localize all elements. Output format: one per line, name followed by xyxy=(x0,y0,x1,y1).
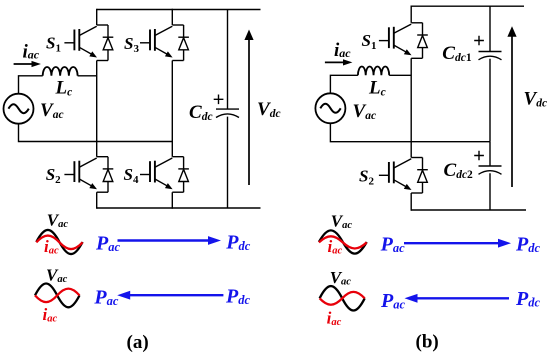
wire: inductor to leg midpoint (b) xyxy=(389,74,411,76)
wire: bottom DC rail (a) xyxy=(97,207,261,209)
plus polarity sign Cdc (a) xyxy=(214,95,224,105)
wire: bottom DC rail (b) xyxy=(411,209,526,211)
waveform Vac sine black, (a) in-phase pair xyxy=(36,230,82,254)
waveform iac sine red, (a) reverse pair xyxy=(35,289,80,303)
waveform iac sine red, (b) in-phase pair xyxy=(319,236,367,248)
waveform Vac sine black, (a) reverse pair xyxy=(35,283,80,307)
capacitor Cdc1 plates (b) xyxy=(479,51,502,53)
IGBT S3 with antiparallel diode (a) xyxy=(140,25,189,61)
AC source sine symbol (a) xyxy=(8,104,28,113)
power flow arrow left (a) row2 xyxy=(129,294,223,296)
AC voltage source Vac circle (b) xyxy=(315,93,345,123)
wire: top DC rail (b) xyxy=(411,5,524,7)
IGBT S2 with antiparallel diode (a) xyxy=(64,157,113,193)
wire: top DC rail (a) xyxy=(97,9,261,11)
capacitor Cdc plates (a) xyxy=(216,108,239,110)
wire: left leg segments (a) xyxy=(96,9,98,209)
power flow arrow right (b) row1 xyxy=(404,242,500,244)
AC source sine symbol (b) xyxy=(320,104,340,113)
AC voltage source Vac circle (a) xyxy=(4,94,34,124)
wire: source bottom return to right leg midpoint (a) xyxy=(19,124,173,142)
power flow arrow left (b) row2 xyxy=(417,297,510,299)
wire: inductor to left leg midpoint (a) xyxy=(78,75,97,77)
wire: source bottom return to capacitor midpoint (b) xyxy=(330,123,490,141)
current arrow iac (b) xyxy=(325,61,346,63)
capacitor Cdc leads (a) xyxy=(227,10,229,209)
plus polarity sign Cdc2 (b) xyxy=(474,151,484,161)
IGBT S1 with antiparallel diode (b) xyxy=(379,23,428,59)
capacitor Cdc1 leads (b) xyxy=(489,6,491,142)
wire: source top lead to inductor (a) xyxy=(19,76,43,94)
waveform iac sine red, (a) in-phase pair xyxy=(36,236,82,250)
wire: source top lead to inductor (b) xyxy=(330,75,358,93)
capacitor Cdc2 leads (b) xyxy=(489,142,491,210)
IGBT S2 with antiparallel diode (b) xyxy=(379,158,428,194)
wire: right leg segments (a) xyxy=(171,9,173,209)
voltage arrow Vdc (a) xyxy=(248,38,250,185)
IGBT S4 with antiparallel diode (a) xyxy=(140,157,189,193)
waveform iac sine red, (b) reverse pair xyxy=(320,292,365,305)
wire: leg segments (b) xyxy=(410,6,412,211)
capacitor Cdc2 plates (b) xyxy=(479,165,502,167)
current arrow iac (a) xyxy=(14,63,34,65)
voltage arrow Vdc (b) xyxy=(511,35,513,187)
plus polarity sign Cdc1 (b) xyxy=(474,36,484,46)
IGBT S1 with antiparallel diode (a) xyxy=(64,25,113,61)
svg-text:(a): (a) xyxy=(127,332,149,353)
svg-text:(b): (b) xyxy=(416,332,439,353)
waveform Vac sine black, (b) in-phase pair xyxy=(319,230,367,253)
waveform Vac sine black, (b) reverse pair xyxy=(320,286,365,310)
inductor Lc (b) xyxy=(358,66,389,75)
inductor Lc (a) xyxy=(43,67,78,76)
power flow arrow right (a) row1 xyxy=(118,239,210,241)
